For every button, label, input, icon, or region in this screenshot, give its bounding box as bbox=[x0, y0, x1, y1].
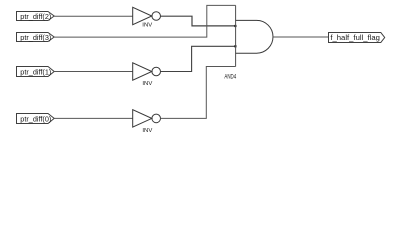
svg-text:ptr_diff(0): ptr_diff(0) bbox=[20, 114, 51, 123]
wire net ptr_diff(1) to INV2 input bbox=[54, 71, 133, 73]
svg-text:AND4: AND4 bbox=[224, 75, 236, 81]
inverter U1 INV bbox=[133, 7, 161, 24]
wire INV2 output to AND4 pin3 bbox=[161, 46, 236, 71]
wire INV1 output to AND4 pin2 bbox=[161, 16, 236, 26]
junction AND4 pin3 bbox=[234, 45, 236, 47]
and-gate U4 AND4 input edge bbox=[235, 5, 237, 66]
input port ptr_diff(0) bbox=[17, 114, 55, 124]
svg-text:ptr_diff(3): ptr_diff(3) bbox=[20, 33, 51, 42]
svg-text:ptr_diff(2): ptr_diff(2) bbox=[20, 12, 51, 21]
svg-text:INV: INV bbox=[142, 23, 152, 29]
wire net ptr_diff(0) to INV3 input bbox=[54, 117, 133, 119]
wire AND4 output to f_half_full_flag bbox=[273, 36, 328, 38]
svg-text:INV: INV bbox=[142, 81, 152, 87]
input port ptr_diff(2) bbox=[17, 12, 55, 21]
svg-text:f_half_full_flag: f_half_full_flag bbox=[330, 33, 380, 42]
svg-text:ptr_diff(1): ptr_diff(1) bbox=[20, 67, 51, 76]
wire net ptr_diff(2) to INV1 input bbox=[54, 15, 133, 17]
junction AND4 pin2 bbox=[234, 25, 236, 27]
input port ptr_diff(1) bbox=[17, 67, 55, 77]
input port ptr_diff(3) bbox=[17, 33, 55, 42]
inverter U2 INV bbox=[133, 63, 161, 80]
output port f_half_full_flag bbox=[329, 33, 385, 43]
svg-text:INV: INV bbox=[142, 128, 152, 134]
wire INV3 output to AND4 pin4 bbox=[161, 67, 236, 119]
and-gate U4 AND4 body bbox=[236, 20, 273, 53]
wire net ptr_diff(3) to AND4 pin1 bbox=[54, 5, 235, 37]
inverter U3 INV bbox=[133, 110, 161, 127]
